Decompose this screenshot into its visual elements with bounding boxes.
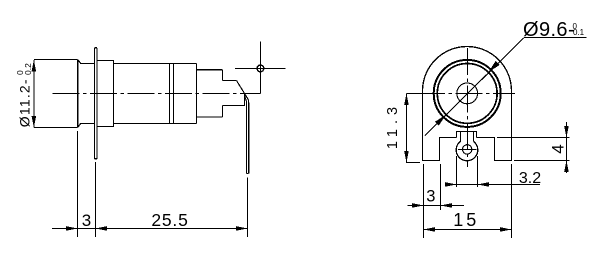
svg-text:0.1: 0.1	[573, 28, 585, 37]
svg-text:15: 15	[453, 210, 479, 230]
svg-text:Ø9.6-: Ø9.6-	[523, 19, 575, 41]
svg-text:25.5: 25.5	[151, 210, 188, 230]
svg-text:11.3: 11.3	[385, 102, 401, 149]
svg-text:3.2: 3.2	[519, 170, 541, 187]
svg-text:3: 3	[82, 211, 91, 230]
svg-text:4: 4	[549, 144, 568, 153]
svg-text:0.2: 0.2	[23, 63, 33, 75]
svg-text:3: 3	[426, 188, 435, 206]
svg-text:Ø11.2-: Ø11.2-	[16, 78, 32, 127]
